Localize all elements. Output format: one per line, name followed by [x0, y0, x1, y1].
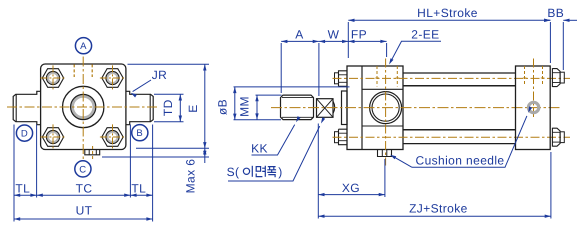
svg-text:BB: BB — [547, 6, 564, 20]
dim Max 6 — [102, 156, 209, 158]
cushion needle tab (front view) — [85, 150, 100, 155]
label KK leader — [252, 125, 295, 155]
svg-text:JR: JR — [152, 68, 167, 82]
bolt bottom-left hex head — [42, 128, 63, 147]
rod hole circle — [71, 94, 96, 119]
tube seat lines in front head — [362, 88, 403, 90]
dim TC — [37, 194, 131, 196]
svg-text:E: E — [186, 104, 200, 112]
dim TL right — [130, 194, 152, 196]
front tie rod nut bottom — [339, 129, 348, 145]
svg-text:HL+Stroke: HL+Stroke — [417, 6, 478, 20]
dim A — [281, 40, 319, 42]
dim W — [319, 40, 348, 42]
dim ZJ+Stroke — [318, 215, 551, 217]
bolt top-right washer ring — [107, 73, 117, 83]
EE thread ticks front — [375, 77, 379, 79]
tie rod centerline bottom — [333, 136, 571, 138]
dim XG — [318, 194, 385, 196]
hidden port lines top of flange — [73, 64, 75, 77]
svg-text:B: B — [136, 128, 143, 139]
bolt top-right centerlines — [100, 77, 125, 79]
svg-text:C: C — [79, 164, 86, 175]
rear tie rod stub top — [560, 72, 564, 83]
hidden cushion axis bottom front view — [92, 146, 94, 161]
tie rod bottom edge — [403, 143, 516, 145]
rear tie rod washer top — [551, 68, 553, 87]
tie rod centerline top — [333, 77, 571, 79]
rod wrench flats block S — [317, 99, 334, 118]
dim JR leader — [133, 80, 151, 92]
main vertical centerline front view — [82, 57, 84, 161]
svg-text:ZJ+Stroke: ZJ+Stroke — [409, 202, 468, 216]
bolt bottom-right centerlines — [100, 136, 125, 138]
label S leader — [228, 126, 320, 181]
port mark C — [75, 161, 91, 177]
port vertical centerline front head — [385, 59, 387, 166]
bolt bottom-left washer ring — [48, 132, 58, 142]
bolt top-left hex head — [42, 69, 63, 88]
svg-text:Max 6: Max 6 — [184, 159, 198, 194]
cushion needle tab under front head — [378, 150, 392, 157]
svg-text:FP: FP — [351, 28, 367, 42]
rod hole gray chamfer ring — [72, 96, 94, 118]
port boss circle inner — [372, 94, 399, 121]
port mark D — [16, 125, 32, 141]
front head block — [347, 66, 403, 150]
bore outer circle — [62, 86, 103, 127]
dim HL+Stroke — [348, 19, 550, 21]
dim MM — [256, 94, 282, 96]
dim TL left — [14, 194, 37, 196]
port vertical centerline rear head — [533, 59, 535, 118]
EE thread ticks rear — [523, 77, 527, 79]
extension lines top dims — [280, 43, 282, 93]
dim E — [128, 63, 210, 65]
dim FP — [348, 40, 386, 42]
thread minor diameter lines — [282, 96, 314, 98]
port mark B — [132, 125, 148, 141]
port mark A — [75, 38, 91, 54]
rod gland plate — [342, 91, 348, 125]
bolt bottom-left circle — [46, 130, 59, 143]
rear tie rod nut bottom — [552, 128, 560, 146]
svg-text:W: W — [328, 28, 340, 42]
svg-text:UT: UT — [76, 204, 93, 218]
svg-text:TL: TL — [15, 181, 30, 195]
svg-text:TL: TL — [131, 181, 146, 195]
bolt top-right circle — [106, 71, 119, 84]
dim TD — [154, 93, 184, 95]
extension lines bottom dims — [317, 124, 319, 219]
rear tie rod stub bottom — [560, 132, 564, 143]
extension lines TL/TC/UT — [13, 125, 15, 222]
front tie rod nut top — [339, 71, 348, 87]
svg-text:D: D — [21, 129, 28, 140]
dim UT — [14, 218, 153, 220]
bolt bottom-right circle — [106, 130, 119, 143]
dim 2-EE leader — [390, 41, 441, 62]
rear tie rod washer bottom — [551, 128, 553, 147]
EE port hidden lines rear head — [524, 66, 526, 85]
svg-text:S(: S( — [227, 165, 240, 179]
rear tie rod nut top — [552, 69, 560, 87]
svg-text:TC: TC — [76, 181, 93, 195]
main horizontal centerline front view — [7, 106, 160, 108]
svg-text:Cushion needle: Cushion needle — [416, 153, 505, 167]
tie rod top edge — [403, 72, 516, 74]
left boss chamfer line — [15, 94, 17, 121]
bolt bottom-right washer ring — [107, 132, 117, 142]
svg-text:KK: KK — [251, 141, 268, 155]
wrench flats X marks — [317, 99, 334, 118]
bolt top-left centerlines — [40, 77, 65, 79]
main axis centerline side view — [271, 107, 562, 109]
svg-text:TD: TD — [161, 99, 175, 116]
svg-text:A: A — [295, 28, 303, 42]
svg-text:MM: MM — [238, 96, 252, 117]
EE port hidden lines front head — [376, 66, 378, 87]
rear head block — [516, 66, 551, 150]
front tie rod stub top — [335, 73, 339, 84]
bolt top-left circle — [46, 71, 59, 84]
bolt top-right hex head — [102, 69, 123, 88]
flange rear face line — [361, 66, 363, 150]
svg-text:): ) — [278, 165, 282, 179]
dim BB — [544, 19, 550, 21]
cylinder tube outer lines — [403, 85, 516, 87]
svg-text:2-EE: 2-EE — [411, 28, 439, 42]
svg-text:øB: øB — [216, 99, 230, 115]
left trunnion boss — [13, 91, 40, 124]
svg-text:A: A — [80, 41, 87, 52]
port boss circle outer — [370, 92, 402, 124]
bolt bottom-right hex head — [102, 128, 123, 147]
piston rod threaded end KK — [281, 95, 314, 120]
svg-text:XG: XG — [342, 181, 360, 195]
right boss chamfer line — [149, 94, 151, 121]
bolt top-left washer ring — [48, 73, 58, 83]
front tie rod stub bottom — [335, 132, 339, 143]
right trunnion boss — [126, 91, 153, 124]
dim oB — [234, 86, 350, 88]
cushion needle screw (gray) — [528, 102, 538, 112]
rod tip arc — [333, 102, 335, 114]
label Cushion needle leader — [412, 116, 527, 167]
flange plate outline — [41, 64, 126, 150]
bolt bottom-left centerlines — [40, 136, 65, 138]
